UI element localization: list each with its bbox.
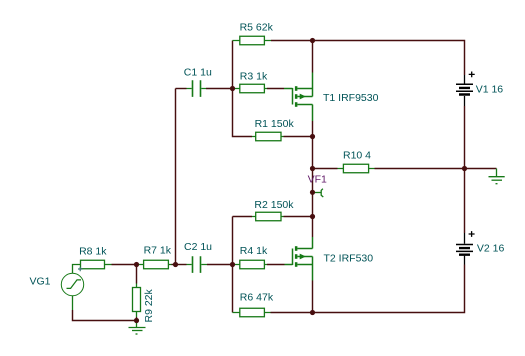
- wire T2 source drop: [312, 281, 314, 313]
- wire left bus bottom (R2 corner down to R6 corner): [232, 217, 234, 313]
- wire C2 left to node: [176, 264, 187, 266]
- resistor R6: [233, 308, 271, 317]
- node output/R10: [310, 166, 315, 171]
- wire R10 to mid junction: [375, 168, 465, 170]
- svg-text:R7 1k: R7 1k: [144, 245, 172, 257]
- resistor R4: [233, 260, 267, 269]
- node R8/R7/R9: [134, 262, 139, 267]
- wire output column: [312, 137, 314, 238]
- node R6/T2 source/bottom rail: [310, 310, 315, 315]
- resistor R5: [233, 36, 272, 45]
- capacitor C1: [187, 80, 207, 97]
- svg-text:C2 1u: C2 1u: [184, 241, 212, 253]
- wire C-branch vertical (C1 left down to C2 node): [175, 89, 177, 265]
- capacitor C2: [187, 256, 208, 273]
- resistor R7: [137, 260, 172, 269]
- wire R6 to T2-source node: [271, 312, 313, 314]
- battery V2: [456, 231, 475, 264]
- svg-text:R10 4: R10 4: [343, 150, 371, 162]
- wire VG1 bottom to ground node: [73, 310, 137, 321]
- svg-text:T2 IRF530: T2 IRF530: [324, 252, 374, 264]
- wire R2 corner: [233, 216, 253, 218]
- ground right: [489, 169, 505, 184]
- svg-text:R2 150k: R2 150k: [254, 199, 294, 211]
- wire C2 to left bus node: [207, 264, 233, 266]
- node VF1 probe: [310, 190, 315, 195]
- node C2/R7/C-branch: [173, 262, 178, 267]
- resistor R10: [338, 164, 375, 173]
- svg-text:C1 1u: C1 1u: [184, 67, 212, 79]
- node R1/T1 drain: [310, 134, 315, 139]
- node R2/T2 drain: [310, 214, 315, 219]
- generator VG1: [61, 265, 83, 311]
- wire R3 to T1 gate: [267, 88, 284, 90]
- node R4/C2/bus: [230, 262, 235, 267]
- svg-text:R3 1k: R3 1k: [240, 71, 268, 83]
- battery V1: [456, 72, 475, 107]
- node R9/VG1/ground: [134, 318, 139, 323]
- resistor R2: [252, 212, 284, 221]
- ground left: [129, 321, 146, 335]
- node mid rail junction: [462, 166, 467, 171]
- node R5/T1 source/top rail: [310, 38, 315, 43]
- resistor R3: [233, 84, 267, 93]
- wire R7 right to C2 node: [172, 264, 176, 266]
- svg-text:V1 16: V1 16: [476, 84, 504, 96]
- wire R9 bottom to ground node: [136, 317, 138, 321]
- wire T1 source drop: [312, 41, 314, 73]
- svg-text:V2 16: V2 16: [477, 243, 505, 255]
- svg-text:R4 1k: R4 1k: [240, 245, 268, 257]
- wire T1 drain to node: [312, 121, 314, 137]
- wire R1 right to drain node: [284, 136, 313, 138]
- wire V2 to bottom rail: [313, 265, 465, 313]
- wire mid junction to V2: [464, 169, 466, 234]
- wire R7 node down to R9: [136, 265, 138, 284]
- voltage probe VF1: [314, 189, 323, 197]
- wire V1 bottom to mid junction: [464, 106, 466, 169]
- wire R2 right to drain node: [284, 216, 313, 218]
- wire top rail to V1: [313, 41, 465, 76]
- node C1/R3/bus: [230, 86, 235, 91]
- wire C1 left horizontal: [176, 88, 187, 90]
- wire left bus (C1/R3 node down to R1 corner): [233, 89, 253, 137]
- resistor R9 (vertical): [133, 284, 141, 318]
- svg-text:T1 IRF9530: T1 IRF9530: [323, 92, 379, 104]
- wire R4 to T2 gate: [267, 264, 285, 266]
- svg-text:R1 150k: R1 150k: [255, 118, 295, 130]
- wire R5 to T1-source node: [271, 40, 313, 42]
- svg-text:VG1: VG1: [30, 276, 51, 288]
- transistor T2 (IRF530 NMOS): [285, 237, 313, 281]
- resistor R8: [81, 260, 112, 269]
- wire mid junction to ground: [465, 168, 497, 170]
- resistor R1: [252, 132, 284, 141]
- svg-text:R6 47k: R6 47k: [240, 292, 274, 304]
- transistor T1 (IRF9530 PMOS): [284, 73, 313, 122]
- wire R8 right to R7 node: [112, 264, 137, 266]
- wire C1 right to node: [206, 88, 233, 90]
- svg-text:R9 22k: R9 22k: [143, 288, 155, 322]
- svg-text:VF1: VF1: [308, 174, 327, 186]
- svg-text:R5 62k: R5 62k: [240, 22, 274, 34]
- wire output node to R10: [313, 168, 338, 170]
- svg-text:R8 1k: R8 1k: [79, 245, 107, 257]
- wire left bus top (R5 left to C1/R3 node): [232, 41, 234, 89]
